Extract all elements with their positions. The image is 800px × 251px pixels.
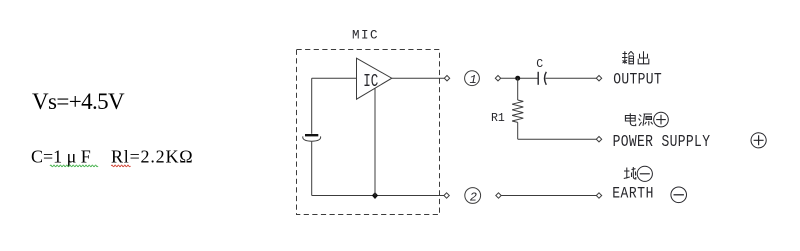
plus circled standalone xyxy=(751,133,766,148)
wire output horizontal xyxy=(392,77,445,79)
svg-text:C: C xyxy=(536,58,543,71)
wire R1 top lead xyxy=(517,78,519,100)
svg-text:Vs=+4.5V: Vs=+4.5V xyxy=(32,89,125,114)
svg-text:C=1 μ F: C=1 μ F xyxy=(31,147,91,167)
svg-text:1: 1 xyxy=(470,73,477,87)
wire input horizontal xyxy=(312,77,357,79)
hanzi dian (power char1) xyxy=(625,113,635,125)
svg-text:MIC: MIC xyxy=(352,29,379,43)
plus circled inline (power) xyxy=(654,112,669,127)
wire left vertical lower xyxy=(311,142,313,196)
hanzi yuan (power char2) xyxy=(639,114,653,126)
terminal earth-line left xyxy=(496,193,501,198)
spell squiggle red xyxy=(111,165,130,167)
capacitor C xyxy=(538,72,546,85)
wire R1 bottom lead xyxy=(517,122,519,139)
svg-text:Rl=2.2KΩ: Rl=2.2KΩ xyxy=(111,147,193,167)
node 1 circled xyxy=(465,71,480,87)
node 2 circled xyxy=(465,188,481,205)
terminal earth right xyxy=(596,193,601,198)
wire power supply horizontal xyxy=(518,138,597,140)
hanzi di (earth char) xyxy=(624,167,636,179)
capacitor electret capsule xyxy=(303,135,321,141)
terminal pin1 mic xyxy=(444,76,449,81)
wire left vertical upper xyxy=(311,78,313,134)
wire to capacitor C xyxy=(501,77,538,79)
hanzi shu (output char1) xyxy=(622,51,634,64)
terminal output right xyxy=(596,76,601,81)
terminal output-line left xyxy=(495,76,500,81)
grammar squiggle green xyxy=(50,165,98,167)
junction node top xyxy=(515,76,520,81)
MIC dashed enclosure xyxy=(297,50,440,215)
wire triangle-bottom vertical xyxy=(374,88,376,195)
svg-text:OUTPUT: OUTPUT xyxy=(613,72,662,89)
svg-text:R1: R1 xyxy=(491,112,505,125)
minus circled standalone xyxy=(671,187,687,203)
wire bottom horizontal xyxy=(312,195,445,197)
terminal power supply xyxy=(596,137,601,142)
junction dot xyxy=(372,192,378,199)
op-amp IC triangle xyxy=(357,58,392,99)
minus circled inline (earth) xyxy=(637,166,652,181)
wire capacitor to output terminal xyxy=(546,77,597,79)
terminal pin2 mic xyxy=(444,193,449,198)
svg-text:POWER SUPPLY: POWER SUPPLY xyxy=(613,134,711,152)
svg-text:IC: IC xyxy=(363,71,378,92)
svg-text:2: 2 xyxy=(470,190,477,204)
resistor R1 xyxy=(512,100,523,122)
hanzi chu (output char2) xyxy=(638,51,649,64)
svg-text:EARTH: EARTH xyxy=(612,186,654,203)
wire earth horizontal xyxy=(501,195,596,197)
